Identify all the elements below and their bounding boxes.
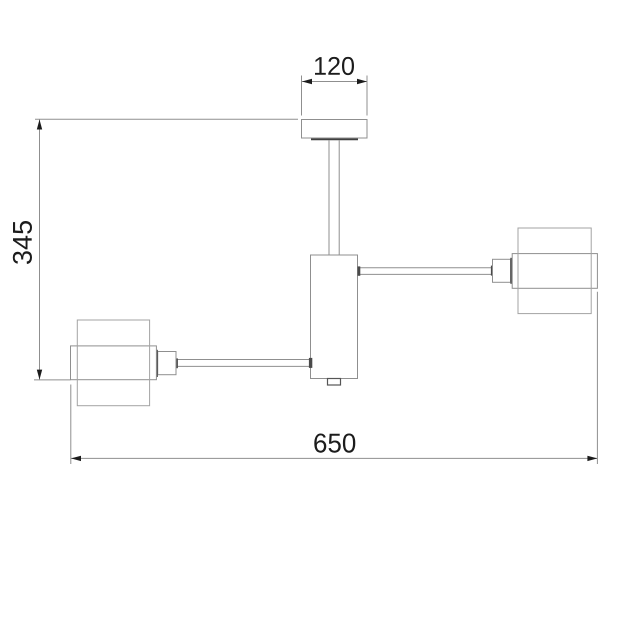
dimension 650 extension line left (70, 385, 72, 465)
right arm connector at body (358, 266, 361, 275)
dimension 345 arrow top (37, 120, 42, 130)
dimension 345 line (39, 120, 41, 380)
dimension 345 extension line bottom (34, 379, 71, 381)
dimension 345 arrow bottom (37, 370, 42, 380)
dimension 120 extension line right (366, 76, 368, 116)
right inner cylinder (512, 254, 597, 289)
left socket (158, 352, 176, 375)
dimension 120 label (315, 57, 354, 75)
left inner cylinder (71, 346, 157, 380)
dimension 650 label (314, 434, 355, 453)
dimension 650 arrow left (71, 456, 81, 461)
bottom tab (328, 379, 341, 386)
dimension 650 extension line right (596, 292, 598, 464)
dimension 120 extension line left (301, 76, 303, 116)
left ring (156, 350, 158, 377)
dimension 650 arrow right (587, 456, 597, 461)
right arm top line (358, 267, 492, 269)
dimension 650 line (71, 457, 597, 459)
dimension 120 arrow right (357, 79, 367, 84)
dimension 345 label (13, 221, 32, 264)
right socket (493, 259, 511, 282)
stem left line (328, 140, 330, 255)
left arm bottom line (178, 365, 311, 367)
central body (311, 255, 358, 379)
left arm top line (178, 359, 311, 361)
left shade (77, 320, 149, 406)
ceiling plate (302, 120, 368, 139)
stem right line (338, 140, 340, 255)
dimension 120 arrow left (302, 79, 312, 84)
left arm connector at body (309, 358, 312, 368)
dimension 345 extension line top (35, 118, 298, 120)
right arm bottom line (358, 273, 492, 275)
right arm connector at socket (491, 266, 493, 276)
left arm connector at socket (176, 358, 178, 368)
dimension 120 line (302, 81, 367, 83)
right shade (518, 228, 591, 314)
ceiling plate flange (311, 138, 358, 140)
right ring (510, 258, 512, 284)
